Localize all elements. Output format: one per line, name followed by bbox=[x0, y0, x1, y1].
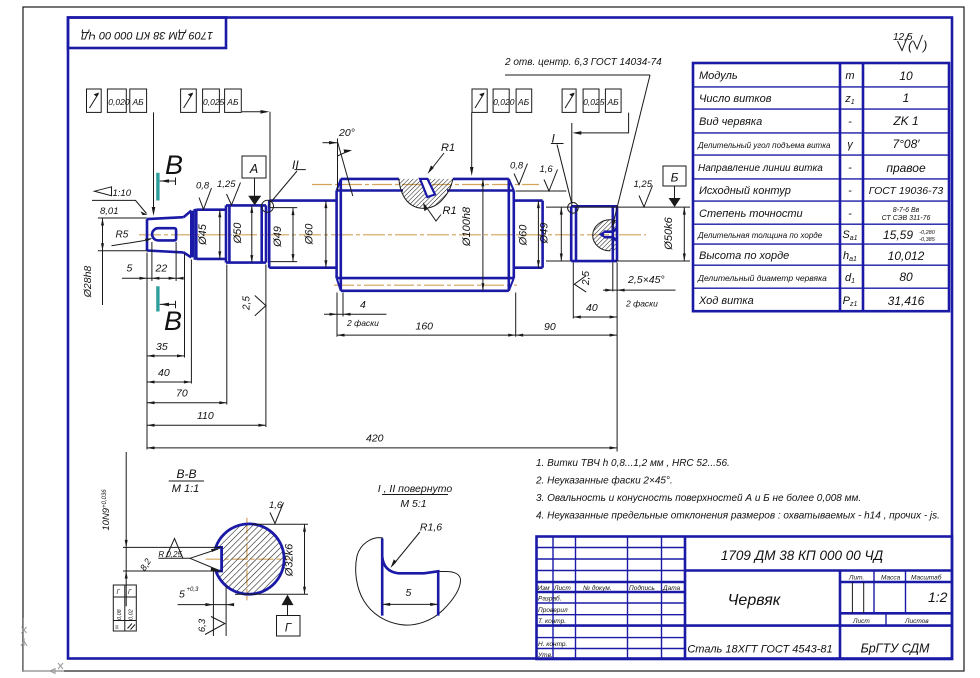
svg-text:22: 22 bbox=[155, 263, 168, 275]
svg-text:Делительная толщина по хорде: Делительная толщина по хорде bbox=[697, 231, 823, 240]
runout tolerance frame 2 bbox=[181, 89, 270, 208]
svg-text:Утв.: Утв. bbox=[537, 652, 553, 659]
svg-text:АБ: АБ bbox=[607, 97, 620, 107]
corner roughness mark 12,5 bbox=[893, 32, 927, 53]
svg-text:3. Овальность и конусность по: 3. Овальность и конусность поверхностей … bbox=[536, 492, 861, 504]
svg-text:Ø50: Ø50 bbox=[232, 222, 244, 245]
svg-text:В-В: В-В bbox=[176, 467, 196, 481]
svg-text:Делительный угол подъема витка: Делительный угол подъема витка bbox=[697, 141, 831, 150]
runout tolerance frame 1 bbox=[87, 89, 156, 216]
svg-text:Г: Г bbox=[285, 623, 292, 635]
detail I,II title bbox=[378, 483, 453, 510]
roughness 1,6 on worm root bbox=[516, 164, 567, 191]
svg-text:В: В bbox=[164, 306, 182, 336]
svg-text:Число витков: Число витков bbox=[699, 93, 772, 105]
svg-text:Лист: Лист bbox=[852, 618, 870, 625]
section B-B cut marks bbox=[156, 150, 183, 336]
svg-text:0,020: 0,020 bbox=[108, 97, 130, 107]
svg-text:1,25: 1,25 bbox=[217, 179, 236, 190]
shaft shoulder Ø60 left bbox=[269, 201, 336, 268]
svg-text:40: 40 bbox=[586, 302, 598, 314]
svg-text:90: 90 bbox=[544, 321, 556, 333]
detail I,II groove profile bbox=[382, 539, 438, 616]
svg-text:ZK 1: ZK 1 bbox=[892, 114, 918, 128]
dimension 160 (worm length) bbox=[337, 321, 516, 337]
svg-text:0,020: 0,020 bbox=[493, 97, 515, 107]
fillet label R1,6 bbox=[391, 522, 443, 569]
dimension 110 bbox=[147, 410, 266, 427]
svg-text:2. Неуказанные фаски 2×45°.: 2. Неуказанные фаски 2×45°. bbox=[535, 475, 673, 487]
svg-text:Лит.: Лит. bbox=[848, 575, 864, 582]
svg-text:20°: 20° bbox=[338, 127, 355, 139]
svg-text:Подпись: Подпись bbox=[629, 584, 655, 592]
dimension 90 bbox=[516, 321, 617, 337]
runout tolerance frame 4 bbox=[562, 89, 629, 206]
svg-text:31,416: 31,416 bbox=[888, 294, 925, 308]
keyway corner radius R 0,25 bbox=[158, 549, 219, 571]
small tolerance table bbox=[113, 585, 136, 631]
diameter dim Ø45 bbox=[197, 210, 221, 259]
svg-text:5: 5 bbox=[127, 263, 133, 275]
detail dim 5 bbox=[382, 587, 438, 606]
svg-text:Ø45: Ø45 bbox=[197, 223, 209, 246]
surface label II bbox=[262, 158, 306, 212]
shaft centerline bbox=[139, 234, 646, 236]
svg-text:-: - bbox=[848, 185, 852, 197]
svg-text:1709 ДМ 38 КП 000 00 ЧД: 1709 ДМ 38 КП 000 00 ЧД bbox=[81, 29, 213, 41]
extension lines below shaft bbox=[147, 242, 617, 452]
svg-text:R5: R5 bbox=[116, 230, 129, 241]
keyway slot on left journal bbox=[152, 228, 176, 240]
svg-text:АБ: АБ bbox=[132, 97, 145, 107]
svg-text:ГОСТ 19036-73: ГОСТ 19036-73 bbox=[869, 185, 944, 197]
svg-text:0,025: 0,025 bbox=[583, 97, 605, 107]
shaft end section Ø50k6 (datum Б) bbox=[571, 206, 617, 261]
svg-text:15,59: 15,59 bbox=[883, 228, 913, 242]
svg-text:R1: R1 bbox=[441, 142, 455, 154]
svg-text:+0,3: +0,3 bbox=[187, 587, 200, 593]
dimension 2,5×45° / 2 фаски (end chamfers) bbox=[603, 274, 676, 309]
roughness 6,3 below bbox=[197, 617, 225, 635]
svg-text:Листов: Листов bbox=[904, 618, 929, 625]
thread angle 20° bbox=[323, 127, 355, 196]
shaft section Ø60 right bbox=[514, 201, 543, 268]
svg-text:0,025: 0,025 bbox=[203, 97, 225, 107]
svg-text:-0,280: -0,280 bbox=[919, 230, 936, 236]
svg-text:1,25: 1,25 bbox=[634, 179, 653, 190]
diameter dim Ø100h8 bbox=[461, 179, 484, 291]
svg-text:БрГТУ СДМ: БрГТУ СДМ bbox=[861, 642, 930, 656]
surface label I bbox=[551, 132, 578, 214]
svg-text:Изм: Изм bbox=[538, 585, 551, 592]
svg-text:1. Витки ТВЧ h 0,8...1,2 мм ,: 1. Витки ТВЧ h 0,8...1,2 мм , HRC 52...5… bbox=[536, 458, 730, 469]
svg-text:Вид червяка: Вид червяка bbox=[699, 116, 762, 128]
diameter dim Ø60 left bbox=[304, 201, 328, 268]
relief groove at cone end bbox=[191, 211, 193, 258]
svg-text:Н. контр.: Н. контр. bbox=[538, 641, 568, 648]
shaft section Ø50 (datum A) bbox=[226, 205, 266, 262]
title block bbox=[537, 537, 953, 660]
centre holes note bbox=[504, 57, 662, 229]
thread groove local section (hatched) bbox=[399, 179, 453, 208]
worm body Ø100h8 bbox=[337, 179, 514, 291]
svg-text:Лист: Лист bbox=[553, 585, 571, 592]
svg-text:4. Неуказанные предельные отк: 4. Неуказанные предельные отклонения раз… bbox=[536, 511, 940, 522]
section B-B centerlines bbox=[206, 518, 290, 601]
svg-text:Ø32k6: Ø32k6 bbox=[284, 543, 296, 577]
centre hole local section bbox=[593, 220, 617, 251]
diameter dim Ø50k6 bbox=[574, 207, 691, 261]
svg-text:5: 5 bbox=[179, 589, 185, 601]
fillet label R1 top bbox=[428, 142, 456, 174]
leader R5 bbox=[112, 230, 153, 246]
diameter dim Ø50 bbox=[232, 205, 253, 262]
svg-text:Б: Б bbox=[671, 171, 679, 185]
svg-text:Высота по хорде: Высота по хорде bbox=[699, 250, 789, 262]
svg-text:8-7-6 Bв: 8-7-6 Bв bbox=[893, 207, 920, 214]
thread flank profile bbox=[420, 179, 435, 197]
svg-text:Ход витка: Ход витка bbox=[698, 295, 754, 307]
shaft section Ø45 bbox=[194, 210, 226, 259]
thread relief neck Ø49 left bbox=[270, 208, 297, 262]
svg-text:2 фаски: 2 фаски bbox=[346, 318, 379, 328]
svg-text:110: 110 bbox=[197, 410, 214, 422]
worm tip cylinder lines bbox=[341, 179, 509, 291]
roughness 1,6 on Ø32 bbox=[269, 500, 284, 524]
svg-text:10: 10 bbox=[899, 69, 913, 83]
svg-text:Разраб.: Разраб. bbox=[538, 595, 562, 603]
svg-text:0,8: 0,8 bbox=[196, 181, 210, 192]
plot corner marks bbox=[21, 618, 64, 674]
svg-text:35: 35 bbox=[156, 341, 168, 353]
svg-text:Модуль: Модуль bbox=[699, 70, 738, 82]
svg-text:420: 420 bbox=[366, 433, 384, 445]
svg-text:2,5×45°: 2,5×45° bbox=[627, 274, 665, 286]
roughness 0,8 on Ø45 bbox=[196, 181, 212, 210]
svg-text:7°08′: 7°08′ bbox=[892, 137, 920, 151]
detail I,II break outline bbox=[356, 538, 461, 625]
svg-text:1,6: 1,6 bbox=[540, 164, 554, 175]
svg-text:70: 70 bbox=[176, 388, 188, 400]
svg-text:2 фаски: 2 фаски bbox=[625, 299, 658, 309]
svg-text:R1,6: R1,6 bbox=[420, 522, 442, 534]
section B-B title bbox=[169, 467, 204, 495]
roughness 1,25 on Ø50 bbox=[217, 179, 241, 205]
shaft left tapered section Ø28h8 bbox=[147, 211, 191, 258]
runout tolerance frame 3 bbox=[470, 89, 532, 176]
svg-text:Ø49: Ø49 bbox=[539, 223, 551, 245]
svg-text:Ø50k6: Ø50k6 bbox=[663, 216, 675, 250]
worm parameter table bbox=[693, 63, 949, 311]
svg-text:Проверил: Проверил bbox=[538, 607, 568, 614]
roughness 3,2 on keyway flat bbox=[138, 539, 183, 573]
dimension 5 (keyway offset) bbox=[122, 263, 181, 280]
svg-text:АБ: АБ bbox=[226, 97, 239, 107]
worm pitch line top bbox=[312, 184, 539, 186]
svg-text:А: А bbox=[249, 162, 258, 176]
chamfer note 2,5 at Ø50k6 bbox=[574, 271, 592, 292]
svg-text:8,01: 8,01 bbox=[100, 206, 119, 217]
svg-text:1: 1 bbox=[903, 91, 910, 105]
dim Ø32k6 bbox=[235, 524, 308, 594]
dimension 40 bbox=[147, 367, 191, 384]
svg-text:2,5: 2,5 bbox=[242, 296, 253, 311]
diameter dim Ø49 left bbox=[272, 208, 295, 262]
roughness 0,8 on worm flank bbox=[510, 161, 528, 185]
svg-text:5: 5 bbox=[406, 587, 412, 599]
dimension 22 (keyway length) bbox=[155, 263, 184, 280]
datum flag А bbox=[242, 156, 266, 205]
svg-text:М 1:1: М 1:1 bbox=[172, 483, 200, 495]
chamfer note 2,5 at Ø50 bbox=[242, 296, 266, 316]
svg-text:-: - bbox=[848, 116, 852, 128]
svg-text:40: 40 bbox=[158, 367, 170, 379]
dimension 35 bbox=[147, 341, 185, 357]
diameter dim Ø49 right bbox=[539, 207, 563, 261]
svg-text:2 отв. центр. 6,3 ГОСТ 14034-7: 2 отв. центр. 6,3 ГОСТ 14034-74 bbox=[504, 57, 662, 68]
svg-text:Делительный диаметр червяка: Делительный диаметр червяка bbox=[697, 273, 827, 283]
fillet label R1 bottom bbox=[423, 202, 457, 221]
svg-text:Исходный контур: Исходный контур bbox=[699, 185, 791, 197]
worm pitch line bottom bbox=[334, 284, 517, 286]
svg-text:Ø60: Ø60 bbox=[518, 224, 530, 247]
svg-text:-: - bbox=[848, 162, 852, 174]
dimension 70 bbox=[147, 388, 227, 405]
section B-B shaft circle Ø32k6 bbox=[216, 524, 284, 594]
dimension 420 bbox=[147, 433, 617, 450]
keyway width dim 10N9 bbox=[101, 452, 222, 606]
svg-text:Червяк: Червяк bbox=[728, 592, 782, 609]
svg-text:В: В bbox=[165, 150, 183, 180]
svg-text:Сталь 18ХГТ ГОСТ 4543-81: Сталь 18ХГТ ГОСТ 4543-81 bbox=[687, 644, 832, 656]
svg-text:правое: правое bbox=[886, 161, 926, 175]
svg-text:-: - bbox=[848, 208, 852, 220]
svg-text:160: 160 bbox=[416, 321, 434, 333]
roughness 1,25 on Ø50k6 bbox=[634, 179, 653, 207]
svg-text:Масштаб: Масштаб bbox=[911, 574, 942, 582]
dimension 40 (end journal) bbox=[573, 302, 617, 319]
svg-text:АБ: АБ bbox=[517, 97, 530, 107]
svg-text:Ø28h8: Ø28h8 bbox=[82, 266, 94, 299]
datum flag Б bbox=[663, 166, 686, 207]
svg-text:I , II повернуто: I , II повернуто bbox=[378, 483, 453, 495]
diameter dim Ø28h8 + 8,01 bbox=[82, 206, 147, 305]
svg-text:Ø100h8: Ø100h8 bbox=[461, 206, 473, 247]
svg-text:СТ СЭВ 311-76: СТ СЭВ 311-76 bbox=[882, 215, 931, 222]
svg-text:Масса: Масса bbox=[881, 575, 901, 582]
taper symbol 1:10 bbox=[92, 187, 148, 215]
svg-text:80: 80 bbox=[899, 270, 913, 284]
svg-text:R1: R1 bbox=[443, 205, 457, 217]
svg-text:Ø49: Ø49 bbox=[272, 226, 284, 248]
svg-text:10,012: 10,012 bbox=[888, 249, 925, 263]
svg-text:4: 4 bbox=[360, 299, 366, 311]
thread relief neck Ø49 right bbox=[546, 207, 574, 261]
svg-text:Направление линии витка: Направление линии витка bbox=[698, 163, 823, 174]
diameter dim Ø60 right bbox=[518, 201, 540, 268]
svg-text:R 0,25: R 0,25 bbox=[158, 550, 182, 559]
svg-text:1:2: 1:2 bbox=[928, 589, 948, 605]
top-left stamp box bbox=[68, 18, 226, 49]
svg-text:0,8: 0,8 bbox=[510, 161, 524, 172]
svg-text:≡: ≡ bbox=[115, 625, 119, 631]
svg-text:Т. контр.: Т. контр. bbox=[538, 618, 566, 625]
keyway depth dim 5 bbox=[178, 571, 235, 636]
technical notes bbox=[535, 458, 940, 522]
svg-text:-0,385: -0,385 bbox=[919, 237, 936, 243]
svg-text:1:10: 1:10 bbox=[113, 188, 132, 199]
datum flag Г bbox=[277, 595, 301, 636]
svg-text:m: m bbox=[845, 70, 854, 82]
dimension 4 / 2 фаски (worm chamfers) bbox=[324, 299, 387, 328]
svg-text:№ докум.: № докум. bbox=[583, 584, 612, 592]
svg-text:Ø60: Ø60 bbox=[304, 223, 316, 246]
svg-text:6,3: 6,3 bbox=[197, 618, 208, 632]
svg-text:0,02: 0,02 bbox=[129, 609, 135, 620]
svg-text:0,08: 0,08 bbox=[117, 608, 123, 620]
svg-text:М 5:1: М 5:1 bbox=[400, 498, 426, 510]
svg-text:Степень точности: Степень точности bbox=[699, 208, 803, 220]
svg-text:Дата: Дата bbox=[662, 585, 681, 592]
svg-text:1709 ДМ 38 КП 000 00 ЧД: 1709 ДМ 38 КП 000 00 ЧД bbox=[721, 548, 884, 563]
